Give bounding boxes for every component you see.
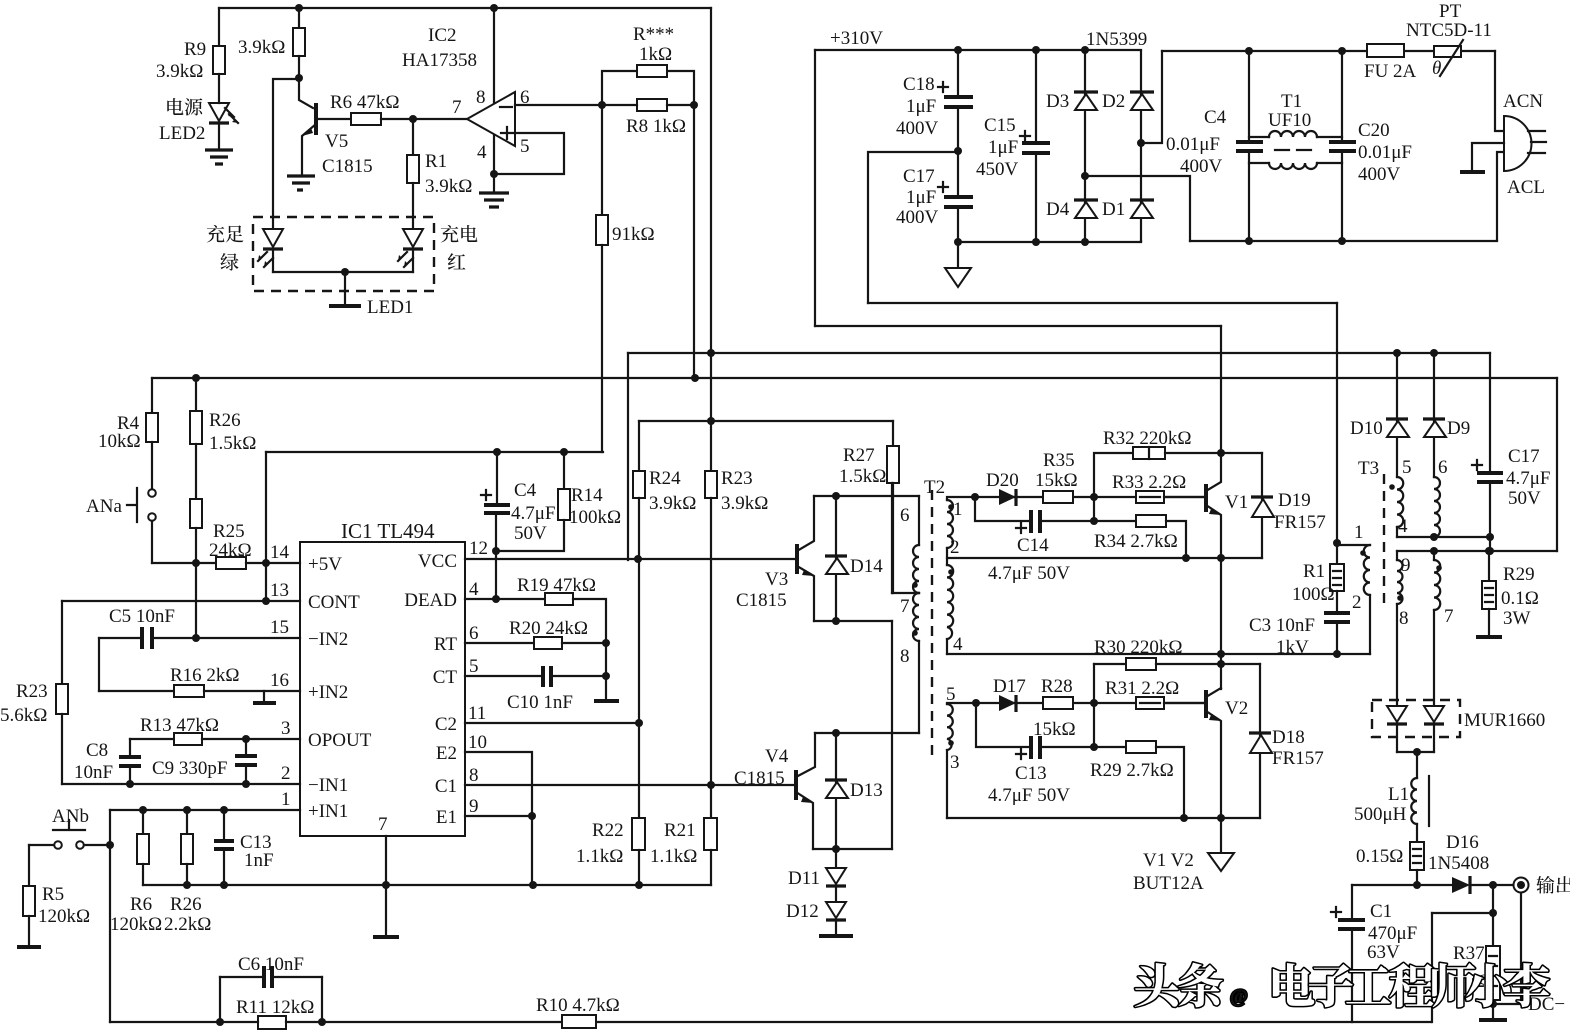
fuse FU 2A <box>1367 44 1404 57</box>
svg-text:D2: D2 <box>1102 91 1125 112</box>
capacitor C13 1nF <box>223 810 225 885</box>
wire AC rail right segment <box>1162 50 1495 52</box>
svg-text:ACL: ACL <box>1507 177 1545 198</box>
node IC2 pin8 on rail <box>490 4 498 12</box>
resistor R1 100ohm snubber <box>1333 539 1341 547</box>
svg-text:LED2: LED2 <box>159 123 205 144</box>
svg-text:2: 2 <box>1352 592 1362 613</box>
ground V5 emitter <box>287 176 315 190</box>
resistor R30 220k <box>1094 663 1126 665</box>
resistor R24 3.9k <box>638 421 640 471</box>
IC U IC1 TL494 <box>300 542 465 836</box>
svg-text:CONT: CONT <box>308 592 360 613</box>
resistor R10 4.7k <box>562 1015 596 1028</box>
svg-text:400V: 400V <box>896 118 939 139</box>
svg-text:CT: CT <box>433 667 458 688</box>
svg-text:6: 6 <box>1438 457 1448 478</box>
wire VCC pin12 / V3 base line <box>465 558 795 560</box>
node filter output <box>1413 881 1421 889</box>
svg-text:T1: T1 <box>1281 91 1302 112</box>
svg-text:3W: 3W <box>1503 608 1531 629</box>
svg-text:PT: PT <box>1439 1 1462 22</box>
svg-text:1N5408: 1N5408 <box>1428 853 1489 874</box>
svg-text:R1: R1 <box>1303 561 1325 582</box>
capacitor C8 10nF <box>129 739 131 784</box>
resistor R34 2.7k <box>1136 515 1166 527</box>
resistor R1 3.9k <box>412 119 414 155</box>
node R6/R1 <box>409 115 417 123</box>
ground IC2 pin4 <box>479 193 509 207</box>
svg-text:D19: D19 <box>1278 490 1311 511</box>
node R8/R*** right <box>690 101 698 109</box>
diode D14 <box>835 496 837 621</box>
svg-text:4.7μF 50V: 4.7μF 50V <box>988 785 1070 806</box>
svg-text:120kΩ: 120kΩ <box>110 914 162 935</box>
capacitor C15 1uF 450V <box>1032 46 1040 54</box>
diode D18 FR157 <box>1259 664 1261 818</box>
resistor R28 15k <box>1043 697 1073 709</box>
svg-text:R25: R25 <box>213 521 245 542</box>
svg-text:R6 47kΩ: R6 47kΩ <box>330 92 400 113</box>
svg-text:100Ω: 100Ω <box>1292 584 1335 605</box>
wire rectifier output join <box>1397 751 1434 753</box>
svg-text:10nF: 10nF <box>74 762 113 783</box>
svg-text:5: 5 <box>469 656 479 677</box>
resistor R26 2.2k <box>186 810 188 834</box>
svg-text:C1815: C1815 <box>322 156 373 177</box>
ground under LED2 <box>205 150 233 164</box>
svg-text:0.1Ω: 0.1Ω <box>1501 588 1539 609</box>
diode D9 <box>1433 353 1435 477</box>
svg-text:T2: T2 <box>924 477 945 498</box>
wire bus +V low-voltage rail <box>628 352 1490 354</box>
svg-text:12: 12 <box>469 538 488 559</box>
svg-text:R26: R26 <box>170 894 202 915</box>
svg-text:R***: R*** <box>633 24 674 45</box>
svg-text:C1: C1 <box>1370 901 1392 922</box>
svg-text:470μF: 470μF <box>1368 923 1417 944</box>
inductor L1 500uH <box>1416 752 1418 778</box>
svg-text:C4: C4 <box>514 480 537 501</box>
wire T2 pin8 to V4 collector <box>918 641 920 733</box>
svg-text:400V: 400V <box>1180 156 1223 177</box>
svg-text:7: 7 <box>378 814 388 835</box>
svg-text:0.01μF: 0.01μF <box>1166 134 1220 155</box>
wire +310V left drop <box>814 50 816 326</box>
svg-text:8: 8 <box>469 765 479 786</box>
wire pin7 ground leg <box>385 836 387 936</box>
wire V1 collector drop <box>1220 326 1222 453</box>
svg-text:1.5kΩ: 1.5kΩ <box>839 466 886 487</box>
capacitor C13 4.7uF 50V <box>976 703 1126 759</box>
wire T2 pin4 rail to T3 <box>947 653 1370 655</box>
svg-text:C6 10nF: C6 10nF <box>238 954 304 975</box>
transformer T3 winding 5-4 <box>1397 477 1403 527</box>
svg-text:6: 6 <box>900 505 910 526</box>
resistor 91k divider <box>601 105 603 215</box>
svg-text:C1: C1 <box>435 776 457 797</box>
wire +310V rail left segment <box>815 49 1141 51</box>
svg-text:50V: 50V <box>1508 488 1541 509</box>
wire bridge mid to AC top <box>1141 51 1162 143</box>
wire right rail corner <box>1556 378 1558 551</box>
svg-text:V2: V2 <box>1225 698 1248 719</box>
wire midpoint tap to bus <box>868 152 958 303</box>
resistor R21 1.1k <box>704 818 717 850</box>
diode D3 <box>1081 46 1089 54</box>
svg-text:5: 5 <box>946 684 956 705</box>
diode D1 <box>1140 143 1142 241</box>
wire T2 pin7 to R27 <box>892 592 919 594</box>
transformer T2 core <box>931 490 933 760</box>
resistor R20 24k <box>465 642 534 644</box>
node C18/C17 midpoint <box>954 147 962 155</box>
svg-text:3.9kΩ: 3.9kΩ <box>156 61 203 82</box>
svg-text:R31 2.2Ω: R31 2.2Ω <box>1105 678 1179 699</box>
svg-text:HA17358: HA17358 <box>402 50 477 71</box>
switch ANb <box>54 841 62 849</box>
svg-text:R28: R28 <box>1041 676 1073 697</box>
wire E1 pin9 <box>465 815 532 817</box>
svg-text:C1815: C1815 <box>736 590 787 611</box>
svg-text:120kΩ: 120kΩ <box>38 906 90 927</box>
wire DC- terminal link <box>1493 893 1521 1004</box>
svg-text:R30 220kΩ: R30 220kΩ <box>1094 637 1183 658</box>
svg-text:R1: R1 <box>425 151 447 172</box>
ground V1 V2 emitter <box>1220 818 1222 853</box>
wire output node <box>1352 884 1513 886</box>
resistor divider lower body <box>190 499 202 528</box>
svg-text:R27: R27 <box>843 445 875 466</box>
svg-text:R19 47kΩ: R19 47kΩ <box>517 575 596 596</box>
svg-text:R5: R5 <box>42 884 64 905</box>
svg-text:C18: C18 <box>903 74 935 95</box>
svg-text:R22: R22 <box>592 820 624 841</box>
svg-text:13: 13 <box>270 580 289 601</box>
svg-text:D14: D14 <box>850 556 883 577</box>
svg-text:C17: C17 <box>1508 446 1540 467</box>
svg-text:C2: C2 <box>435 714 457 735</box>
svg-text:R29: R29 <box>1503 564 1535 585</box>
wire secondary rail lower <box>1397 550 1557 552</box>
ground triangle <box>945 268 971 287</box>
svg-text:MUR1660: MUR1660 <box>1464 710 1545 731</box>
svg-text:BUT12A: BUT12A <box>1133 873 1204 894</box>
svg-text:1: 1 <box>953 499 963 520</box>
svg-text:R9: R9 <box>184 39 206 60</box>
capacitor C4 4.7uF 50V soft start <box>481 452 497 599</box>
resistor R16 2k <box>99 690 174 692</box>
svg-text:FU 2A: FU 2A <box>1364 61 1417 82</box>
capacitor C4 0.01uF 400V line filter <box>1245 47 1253 55</box>
node T2 pin5 / C13 branch <box>972 699 980 707</box>
svg-text:1.1kΩ: 1.1kΩ <box>650 846 697 867</box>
svg-text:4: 4 <box>953 634 963 655</box>
svg-text:FR157: FR157 <box>1274 512 1326 533</box>
wire feedback left riser <box>109 810 111 1022</box>
plug AC mains <box>1495 51 1504 131</box>
diode D2 <box>1140 51 1142 143</box>
svg-text:14: 14 <box>270 542 290 563</box>
diode D12 <box>835 886 837 902</box>
resistor R13 47k <box>130 738 174 740</box>
svg-text:C10 1nF: C10 1nF <box>507 692 573 713</box>
ground RT/CT <box>594 699 619 703</box>
transistor V3 C1815 <box>795 544 799 574</box>
svg-text:V1: V1 <box>1225 492 1248 513</box>
svg-text:D13: D13 <box>850 780 883 801</box>
node pin4/pin5 junction <box>490 170 498 178</box>
op-amp U IC2 HA17358 <box>493 8 495 104</box>
svg-text:1: 1 <box>281 789 291 810</box>
transformer T3 primary 1-2 <box>1337 544 1370 546</box>
svg-text:8: 8 <box>476 87 486 108</box>
capacitor C5 10nF <box>99 637 300 639</box>
svg-text:4: 4 <box>1398 516 1408 537</box>
resistor R19 47k <box>465 598 545 600</box>
transformer T1 UF10 common-mode choke <box>1249 136 1342 138</box>
LED green charge-full <box>263 229 283 247</box>
node collector/LED1 branch <box>295 74 303 82</box>
svg-text:D10: D10 <box>1350 418 1383 439</box>
transistor V4 C1815 <box>794 770 798 800</box>
svg-text:8: 8 <box>1399 608 1409 629</box>
svg-text:ANb: ANb <box>52 806 89 827</box>
svg-text:1: 1 <box>1354 522 1364 543</box>
svg-text:R16 2kΩ: R16 2kΩ <box>170 665 240 686</box>
resistor R32 220k <box>1094 453 1133 497</box>
svg-text:E2: E2 <box>436 743 457 764</box>
svg-text:450V: 450V <box>976 159 1019 180</box>
svg-text:R33 2.2Ω: R33 2.2Ω <box>1112 472 1186 493</box>
svg-text:D11: D11 <box>788 868 820 889</box>
resistor R31 2.2ohm <box>1136 697 1164 709</box>
svg-text:L1: L1 <box>1388 784 1409 805</box>
resistor R5 120k <box>28 845 30 886</box>
svg-text:100kΩ: 100kΩ <box>569 507 621 528</box>
svg-text:ACN: ACN <box>1503 91 1543 112</box>
resistor R6 47k <box>351 113 381 125</box>
node +5V divider junctions <box>192 559 200 567</box>
svg-text:C3 10nF: C3 10nF <box>1249 615 1315 636</box>
svg-text:2: 2 <box>281 763 291 784</box>
wire bus R4/R26 top rail <box>152 377 1557 379</box>
svg-text:R26: R26 <box>209 410 241 431</box>
svg-text:R20 24kΩ: R20 24kΩ <box>509 618 588 639</box>
svg-text:10: 10 <box>468 732 487 753</box>
resistor R37 <box>1492 885 1494 946</box>
svg-text:15: 15 <box>270 617 289 638</box>
wire E2 pin10 <box>465 752 532 816</box>
wire T3 pin8 drop <box>1396 604 1398 706</box>
transformer T2 primary 6-7 <box>918 496 920 545</box>
svg-text:3.9kΩ: 3.9kΩ <box>425 176 472 197</box>
svg-text:9: 9 <box>1401 555 1411 576</box>
wire T3 pin7 drop <box>1433 610 1435 706</box>
svg-text:R11 12kΩ: R11 12kΩ <box>236 997 314 1018</box>
svg-text:400V: 400V <box>896 207 939 228</box>
transformer T2 primary 7-8 <box>913 593 919 641</box>
svg-text:C13: C13 <box>1015 763 1047 784</box>
resistor R11 12k <box>258 1016 286 1029</box>
transformer T2 secondary 1-2 <box>947 497 1203 500</box>
resistor R27 1.5k <box>892 421 894 446</box>
svg-text:R32 220kΩ: R32 220kΩ <box>1103 428 1192 449</box>
node C17 bottom <box>954 238 962 246</box>
resistor R35 15k <box>1043 491 1073 503</box>
svg-text:4: 4 <box>469 579 479 600</box>
svg-text:2: 2 <box>950 537 960 558</box>
thermistor PT NTC5D-11 <box>1434 46 1461 57</box>
capacitor C18 1uF 400V <box>957 50 959 197</box>
svg-text:4: 4 <box>477 142 487 163</box>
svg-text:1.5kΩ: 1.5kΩ <box>209 433 256 454</box>
wire ground bus under IC <box>143 884 711 886</box>
resistor R6 120k <box>142 810 144 834</box>
capacitor C10 1nF <box>465 675 606 677</box>
resistor R*** 1k feedback <box>602 71 694 105</box>
wire bus +310V to V1 collector <box>815 325 1221 327</box>
resistor R25 24k <box>152 562 216 564</box>
transistor V1 BUT12A <box>1204 484 1208 512</box>
node T2 pin1 / C14 branch <box>971 493 979 501</box>
transformer T3 winding 7 <box>1433 551 1435 560</box>
svg-text:C4: C4 <box>1204 107 1227 128</box>
svg-text:63V: 63V <box>1367 942 1400 963</box>
svg-text:LED1: LED1 <box>367 297 413 318</box>
capacitor C6 10nF <box>220 976 322 978</box>
svg-text:NTC5D-11: NTC5D-11 <box>1406 20 1492 41</box>
wire -IN1 pin2 <box>62 783 300 785</box>
wire op-amp +input feedback loop pin5 <box>494 133 564 174</box>
svg-text:D16: D16 <box>1446 832 1479 853</box>
svg-text:+IN2: +IN2 <box>308 682 348 703</box>
svg-text:1N5399: 1N5399 <box>1086 29 1147 50</box>
svg-text:1μF: 1μF <box>988 137 1018 158</box>
svg-text:R13 47kΩ: R13 47kΩ <box>140 715 219 736</box>
wire V3 collector rail <box>814 495 919 497</box>
wire DC- rail right segment <box>1141 240 1497 242</box>
wire V4 emitter rail <box>813 848 892 850</box>
switch ANa <box>148 489 156 497</box>
box LED1 dashed enclosure <box>253 217 434 291</box>
diode D13 <box>835 733 837 849</box>
svg-text:1nF: 1nF <box>244 850 274 871</box>
svg-text:R10 4.7kΩ: R10 4.7kΩ <box>536 995 620 1016</box>
svg-text:+IN1: +IN1 <box>308 801 348 822</box>
resistor R4 10k <box>151 378 153 413</box>
svg-text:D1: D1 <box>1102 199 1125 220</box>
svg-text:T3: T3 <box>1358 458 1379 479</box>
svg-text:91kΩ: 91kΩ <box>612 224 655 245</box>
transformer T3 core <box>1383 474 1385 608</box>
svg-text:C14: C14 <box>1017 535 1049 556</box>
LED red charging <box>403 229 423 247</box>
svg-text:24kΩ: 24kΩ <box>209 540 252 561</box>
svg-text:C5 10nF: C5 10nF <box>109 606 175 627</box>
svg-text:3.9kΩ: 3.9kΩ <box>649 493 696 514</box>
capacitor C20 0.01uF 400V <box>1338 47 1346 55</box>
svg-text:IC1 TL494: IC1 TL494 <box>341 519 435 543</box>
svg-text:DEAD: DEAD <box>404 590 457 611</box>
svg-text:@: @ <box>1230 986 1248 1007</box>
wire bus soft-start rail <box>266 451 603 453</box>
svg-text:2.2kΩ: 2.2kΩ <box>164 914 211 935</box>
svg-text:16: 16 <box>270 670 289 691</box>
diode D19 FR157 <box>1261 453 1263 558</box>
svg-text:3: 3 <box>281 718 291 739</box>
rectifier MUR1660 dashed box <box>1372 700 1460 737</box>
resistor R29 2.7k <box>1126 741 1156 753</box>
wire V4 collector rail <box>815 732 919 734</box>
ground +IN2 pin16 <box>263 691 265 702</box>
svg-text:θ: θ <box>1432 58 1441 79</box>
wire bus R24/R27 drive rail <box>639 420 893 422</box>
svg-text:FR157: FR157 <box>1272 748 1324 769</box>
watermark <box>1135 963 1550 1008</box>
resistor 3.9k collector load <box>298 8 300 28</box>
wire C1 pin8 to V4 base <box>465 784 795 786</box>
svg-text:C17: C17 <box>903 166 935 187</box>
svg-text:11: 11 <box>468 703 486 724</box>
transformer T3 winding 6 <box>1434 477 1440 537</box>
svg-text:7: 7 <box>900 596 910 617</box>
svg-text:50V: 50V <box>514 523 547 544</box>
svg-text:3.9kΩ: 3.9kΩ <box>238 37 285 58</box>
resistor R23 3.9k <box>705 471 717 498</box>
svg-text:V4: V4 <box>765 746 789 767</box>
resistor R22 1.1k <box>632 818 645 850</box>
svg-text:D20: D20 <box>986 470 1019 491</box>
svg-text:V3: V3 <box>765 569 788 590</box>
wire bridge mid to AC bottom <box>1085 176 1190 241</box>
svg-text:R24: R24 <box>649 468 681 489</box>
node D3/D4 midpoint <box>1081 172 1089 180</box>
resistor R8 1k <box>637 99 667 111</box>
svg-text:5: 5 <box>520 136 530 157</box>
wire V2 emitter rail <box>947 817 1260 819</box>
resistor R14 100k <box>563 452 565 489</box>
svg-text:1kΩ: 1kΩ <box>639 44 672 65</box>
wire feedback bottom rail <box>110 1021 1431 1023</box>
ground LED1 <box>329 304 361 308</box>
svg-text:D9: D9 <box>1447 418 1470 439</box>
node C18 top <box>954 46 962 54</box>
ground D12 <box>819 934 853 938</box>
svg-text:R37: R37 <box>1453 943 1485 964</box>
resistor R29 0.1ohm 3W <box>1488 551 1490 581</box>
capacitor C17 1uF 400V <box>944 197 973 207</box>
svg-text:E1: E1 <box>436 807 457 828</box>
wire emitter link V3-V4 <box>891 621 893 849</box>
wire T2 pin2 <box>946 548 948 565</box>
transformer T2 secondary 2-4 <box>947 565 953 639</box>
transformer T2 secondary 5-3 <box>947 703 1204 704</box>
capacitor C17 4.7uF 50V <box>1472 353 1490 551</box>
svg-text:3.9kΩ: 3.9kΩ <box>721 493 768 514</box>
svg-text:D18: D18 <box>1272 727 1305 748</box>
svg-text:10kΩ: 10kΩ <box>98 431 141 452</box>
svg-text:15kΩ: 15kΩ <box>1035 470 1078 491</box>
capacitor C3 10nF 1kV <box>1324 613 1350 622</box>
resistor R9 3.9k <box>213 46 225 74</box>
svg-text:1kV: 1kV <box>1276 637 1309 658</box>
wire bus C18 midpoint to T3 primary <box>868 302 1337 304</box>
svg-text:R34 2.7kΩ: R34 2.7kΩ <box>1094 531 1178 552</box>
transistor V5 C1815 <box>299 78 313 108</box>
diode MUR1660 a <box>1387 706 1407 722</box>
wire top supply rail y7 <box>219 7 711 9</box>
